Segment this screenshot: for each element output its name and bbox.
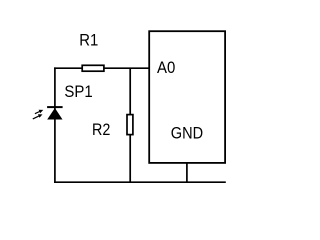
photodiode light arrow 2 [33,114,43,119]
svg-text:SP1: SP1 [64,83,92,101]
resistor R2 [127,115,133,135]
svg-text:R1: R1 [79,31,98,49]
svg-text:R2: R2 [92,121,110,139]
wire R2 vertical branch [129,68,131,182]
component box U1 [149,31,225,163]
photodiode SP1 triangle [47,108,62,120]
wire top horizontal from SP1 branch to box pin A0 [54,67,150,69]
wire from box bottom to ground rail [186,163,188,182]
resistor R1 [82,65,104,71]
wire left vertical branch (SP1 leg) [54,67,56,183]
photodiode light arrow 1 [35,110,43,114]
wire bottom horizontal (ground rail) [54,181,226,183]
svg-text:A0: A0 [157,59,175,77]
photodiode SP1 cathode bar [47,106,63,108]
svg-text:GND: GND [171,125,203,143]
